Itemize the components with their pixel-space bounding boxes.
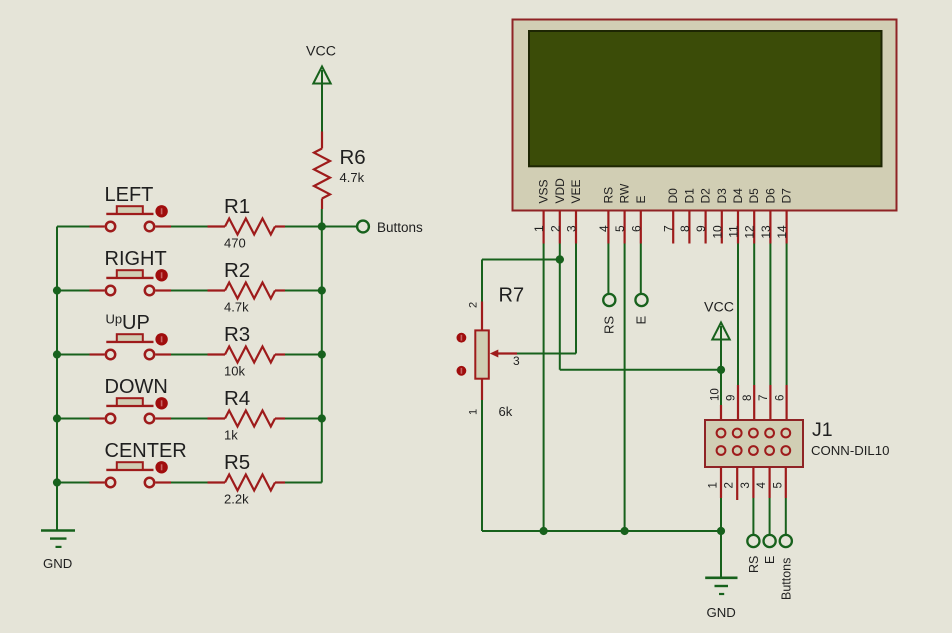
svg-text:VEE: VEE — [569, 179, 583, 203]
svg-text:4: 4 — [597, 225, 611, 232]
svg-text:D2: D2 — [699, 188, 713, 204]
svg-text:2: 2 — [548, 225, 562, 232]
svg-text:13: 13 — [759, 225, 773, 239]
svg-text:2: 2 — [724, 482, 736, 488]
svg-text:6: 6 — [774, 395, 786, 401]
svg-text:E: E — [634, 316, 649, 325]
svg-text:1k: 1k — [224, 428, 238, 443]
svg-text:Buttons: Buttons — [377, 220, 423, 235]
svg-text:D7: D7 — [780, 188, 794, 204]
svg-text:14: 14 — [775, 225, 789, 239]
svg-text:6: 6 — [629, 225, 643, 232]
svg-text:R3: R3 — [224, 323, 250, 346]
svg-text:R6: R6 — [340, 146, 366, 169]
svg-text:9: 9 — [726, 395, 738, 401]
svg-text:8: 8 — [742, 395, 754, 401]
svg-text:VDD: VDD — [553, 178, 567, 204]
svg-text:D0: D0 — [666, 188, 680, 204]
svg-text:2: 2 — [468, 302, 480, 308]
svg-text:4.7k: 4.7k — [224, 300, 249, 315]
svg-text:GND: GND — [707, 605, 736, 620]
svg-text:CONN-DIL10: CONN-DIL10 — [811, 443, 889, 458]
svg-text:R5: R5 — [224, 451, 250, 474]
svg-text:E: E — [634, 195, 648, 203]
svg-text:3: 3 — [740, 482, 752, 488]
svg-text:D3: D3 — [715, 188, 729, 204]
svg-text:CENTER: CENTER — [105, 440, 187, 462]
svg-text:5: 5 — [772, 482, 784, 488]
svg-text:E: E — [763, 556, 777, 564]
svg-text:VCC: VCC — [306, 44, 336, 60]
svg-text:4.7k: 4.7k — [340, 170, 365, 185]
svg-text:6k: 6k — [499, 404, 513, 419]
svg-text:LEFT: LEFT — [105, 184, 154, 206]
svg-text:8: 8 — [678, 225, 692, 232]
svg-text:RS: RS — [602, 316, 617, 334]
svg-text:5: 5 — [613, 225, 627, 232]
svg-text:10: 10 — [710, 388, 722, 401]
svg-text:VSS: VSS — [537, 179, 551, 203]
svg-text:RS: RS — [747, 556, 761, 573]
svg-text:R1: R1 — [224, 195, 250, 218]
svg-text:RIGHT: RIGHT — [105, 248, 167, 270]
svg-text:2.2k: 2.2k — [224, 492, 249, 507]
svg-text:3: 3 — [513, 354, 520, 368]
svg-text:R4: R4 — [224, 387, 250, 410]
svg-text:9: 9 — [694, 225, 708, 232]
svg-text:Up: Up — [106, 312, 123, 327]
svg-text:D4: D4 — [731, 188, 745, 204]
svg-text:D5: D5 — [747, 188, 761, 204]
svg-text:7: 7 — [758, 395, 770, 401]
svg-text:7: 7 — [662, 225, 676, 232]
svg-text:D1: D1 — [682, 188, 696, 204]
svg-text:VCC: VCC — [704, 300, 734, 316]
svg-text:11: 11 — [727, 225, 741, 238]
svg-text:10k: 10k — [224, 364, 245, 379]
svg-text:GND: GND — [43, 556, 72, 571]
svg-text:4: 4 — [756, 482, 768, 489]
svg-text:UP: UP — [122, 312, 150, 334]
svg-text:3: 3 — [565, 225, 579, 232]
svg-text:12: 12 — [743, 225, 757, 239]
svg-text:R2: R2 — [224, 259, 250, 282]
svg-text:R7: R7 — [499, 285, 525, 307]
svg-text:DOWN: DOWN — [105, 376, 168, 398]
svg-text:D6: D6 — [763, 188, 777, 204]
svg-text:RS: RS — [601, 187, 615, 204]
svg-text:RW: RW — [618, 183, 632, 203]
svg-text:J1: J1 — [812, 419, 833, 441]
svg-text:1: 1 — [532, 225, 546, 232]
svg-text:Buttons: Buttons — [780, 558, 794, 600]
svg-text:1: 1 — [468, 409, 480, 415]
svg-text:470: 470 — [224, 236, 246, 251]
svg-text:1: 1 — [708, 482, 720, 488]
svg-text:10: 10 — [710, 225, 724, 239]
